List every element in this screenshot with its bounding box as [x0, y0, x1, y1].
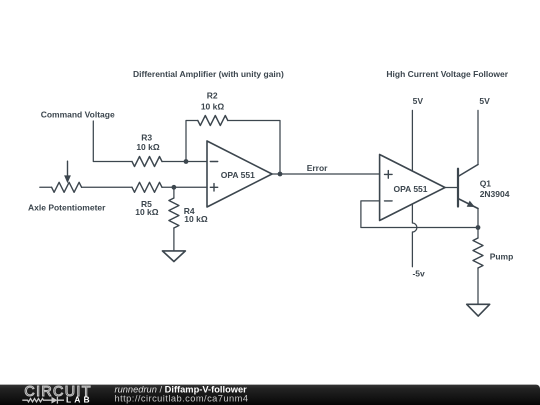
svg-text:High Current Voltage Follower: High Current Voltage Follower: [386, 69, 508, 79]
svg-text:Error: Error: [307, 163, 328, 173]
svg-text:Axle Potentiometer: Axle Potentiometer: [28, 203, 106, 213]
svg-text:OPA 551: OPA 551: [393, 184, 427, 194]
svg-text:R2: R2: [207, 90, 218, 100]
svg-text:5V: 5V: [479, 96, 490, 106]
svg-text:10 kΩ: 10 kΩ: [184, 214, 208, 224]
svg-text:LAB: LAB: [66, 395, 93, 405]
svg-text:5V: 5V: [413, 96, 424, 106]
svg-text:http://circuitlab.com/ca7unm4: http://circuitlab.com/ca7unm4: [115, 393, 249, 403]
svg-text:Pump: Pump: [490, 251, 514, 261]
svg-text:Q1: Q1: [480, 179, 492, 189]
svg-text:OPA 551: OPA 551: [221, 170, 255, 180]
svg-text:10 kΩ: 10 kΩ: [201, 102, 225, 112]
svg-text:-5v: -5v: [412, 269, 425, 279]
svg-text:10 kΩ: 10 kΩ: [135, 207, 159, 217]
svg-text:2N3904: 2N3904: [480, 189, 510, 199]
svg-text:10 kΩ: 10 kΩ: [136, 142, 160, 152]
svg-text:Command Voltage: Command Voltage: [41, 110, 115, 120]
svg-text:Differential Amplifier (with u: Differential Amplifier (with unity gain): [133, 69, 284, 79]
